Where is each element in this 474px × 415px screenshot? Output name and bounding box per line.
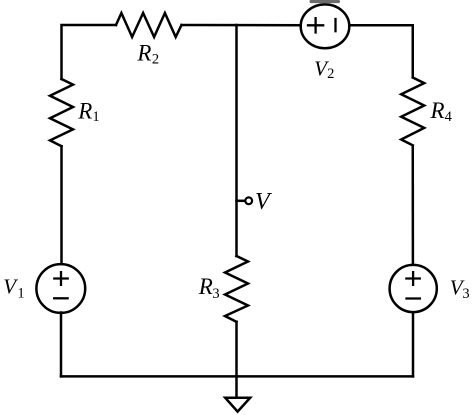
- wire bottom segment: [61, 375, 413, 378]
- label V2: [314, 56, 334, 82]
- svg-text:V: V: [255, 189, 272, 215]
- voltage source V1: [36, 264, 85, 313]
- label R3: [198, 274, 220, 302]
- label V3: [450, 276, 470, 302]
- resistor R2: [116, 13, 182, 37]
- node V: [237, 197, 253, 204]
- wire left-bottom segment: [60, 313, 63, 377]
- label R1: [77, 99, 99, 125]
- wire top-right segment: [349, 25, 412, 77]
- svg-text:V: V: [3, 275, 18, 299]
- svg-text:R: R: [430, 98, 445, 123]
- label V1: [3, 275, 24, 302]
- svg-text:3: 3: [212, 286, 219, 302]
- svg-text:R: R: [77, 99, 92, 124]
- wire top-middle segment: [182, 24, 302, 27]
- svg-text:2: 2: [327, 66, 334, 82]
- resistor R1: [50, 79, 73, 146]
- label R2: [136, 40, 159, 67]
- wire top-left segment: [62, 25, 117, 79]
- wire right-middle segment: [412, 146, 415, 265]
- wire left-middle segment: [60, 146, 63, 264]
- svg-text:2: 2: [152, 52, 159, 68]
- wire middle vertical segment: [235, 25, 238, 256]
- svg-text:R: R: [136, 40, 151, 65]
- wire middle-bottom segment: [235, 322, 238, 397]
- resistor R4: [401, 78, 424, 146]
- voltage source V3: [390, 265, 437, 312]
- svg-text:4: 4: [445, 109, 453, 125]
- svg-text:R: R: [198, 274, 213, 299]
- voltage source V2: [301, 4, 350, 48]
- wire right-bottom segment: [412, 313, 415, 377]
- svg-text:1: 1: [92, 109, 99, 125]
- svg-text:3: 3: [462, 286, 469, 302]
- label R4: [430, 98, 453, 125]
- ground: [225, 398, 250, 412]
- resistor R3: [225, 256, 248, 322]
- svg-text:1: 1: [17, 286, 24, 302]
